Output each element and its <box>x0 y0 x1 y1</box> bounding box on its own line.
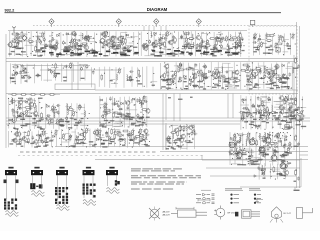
wire bus rail 6 <box>6 117 310 119</box>
right edge components <box>294 135 300 147</box>
wire bus rail 3 <box>6 61 298 63</box>
test point diamond TP3 <box>154 19 159 27</box>
svg-text:C: C <box>254 71 256 75</box>
square symbol mid right <box>285 125 289 129</box>
coil unit LB <box>83 167 96 206</box>
circuit cluster stage B1 <box>10 63 41 84</box>
circuit cluster block D3 <box>166 124 198 150</box>
circuit cluster stage B5 <box>240 62 296 90</box>
wire right stub <box>300 154 309 156</box>
wire bus rail 9 <box>55 146 308 148</box>
arrow marks <box>254 159 260 177</box>
header rule <box>5 12 282 14</box>
shield can bottom view <box>270 207 292 223</box>
wire bus rail 5 <box>6 93 298 95</box>
label row right <box>242 112 289 113</box>
resistor chain row <box>8 94 60 99</box>
svg-text:AA 119: AA 119 <box>163 211 171 214</box>
svg-text:BC 147: BC 147 <box>284 213 292 215</box>
transistor T239 <box>236 152 242 158</box>
svg-text:932.2: 932.2 <box>5 8 16 13</box>
in-circuit diamond <box>100 38 105 43</box>
wire right vertical 2 <box>293 55 295 150</box>
circuit cluster right section A6 <box>253 33 296 56</box>
box band B small <box>55 84 95 90</box>
circuit cluster stage B2 <box>42 62 89 82</box>
circuit cluster IF transformers C3 <box>99 95 150 128</box>
dimension arrow 2 <box>176 207 194 210</box>
svg-text:AA 129: AA 129 <box>163 214 171 217</box>
legend mark small <box>294 190 300 191</box>
crystal symbol X1 <box>149 207 170 221</box>
circuit cluster block D4 <box>228 132 292 166</box>
metal can side view <box>235 198 263 218</box>
transistor T232 <box>229 142 235 148</box>
svg-text:DIAGRAM: DIAGRAM <box>147 7 168 12</box>
transistor T262 <box>259 147 265 153</box>
dashed box right section <box>249 26 297 94</box>
square symbol right <box>276 48 280 52</box>
box lower right block <box>162 120 164 150</box>
coil unit GB <box>31 167 44 197</box>
test point square TP5 <box>250 20 254 27</box>
connector circle <box>252 70 258 76</box>
wire legend link 2 <box>206 167 300 169</box>
package side view <box>297 208 313 219</box>
coil unit KB <box>55 167 69 211</box>
legend text block <box>131 169 201 189</box>
right edge components <box>294 57 300 69</box>
transistor bottom view Q_pkg <box>214 206 235 220</box>
in-circuit diamond <box>22 35 27 40</box>
circuit cluster stage C2 <box>45 103 90 130</box>
wire right margin vertical <box>296 22 298 188</box>
wire dash row <box>20 151 156 153</box>
wire legend link 3 <box>210 175 296 177</box>
value label row band A2 <box>152 50 239 55</box>
circuit cluster stage B3 <box>92 66 158 88</box>
value label row band A <box>42 51 139 56</box>
wire bus rail 1 <box>8 30 247 32</box>
transistor T274 <box>271 155 277 161</box>
test point diamond TP1 <box>49 19 54 27</box>
diode package D_pkg <box>171 210 207 217</box>
coil unit TSSB tab <box>117 181 120 184</box>
circuit cluster output stage D2 <box>60 127 150 148</box>
circuit cluster stage D1 <box>9 129 61 148</box>
circuit cluster IF stage A4 <box>141 30 195 56</box>
coil unit GB blob <box>30 183 35 189</box>
circuit cluster stage C1 <box>8 97 45 130</box>
test point diamond TP4 <box>196 19 201 27</box>
transistor T268 <box>265 137 271 143</box>
circuit cluster stage B4 <box>160 62 241 90</box>
wire left margin vertical <box>5 34 7 148</box>
circuit cluster power tail D6 <box>259 163 290 180</box>
wire drops to band A <box>144 26 166 31</box>
circuit cluster IF stage A5 <box>195 31 244 57</box>
transistor T252 <box>249 139 255 145</box>
svg-text:BF 194: BF 194 <box>228 213 236 215</box>
wire bus rail 11 <box>95 159 308 161</box>
transistor T283 <box>280 163 286 169</box>
circuit cluster tuner stage A2 <box>61 31 101 57</box>
wire bus rail 2 <box>6 58 298 60</box>
right edge components <box>294 169 300 182</box>
dashed separator <box>18 155 205 157</box>
coil unit FM <box>4 167 19 217</box>
circuit cluster tuner stage A1 <box>7 31 61 58</box>
wire link band B <box>20 65 90 67</box>
circuit cluster stage C4 <box>239 95 306 130</box>
wires to lower box <box>163 94 233 122</box>
dashed board outline top <box>33 25 297 27</box>
wire bus rail 10 <box>160 151 308 153</box>
test point diamond TP2 <box>116 19 121 27</box>
wire bus rail 7 <box>6 120 310 122</box>
dimension arrow <box>198 199 210 202</box>
circuit cluster IF stage A3 <box>99 30 140 57</box>
antenna symbol <box>13 28 15 32</box>
wire bus rail 8 <box>6 123 240 125</box>
wire legend link 1 <box>202 159 300 161</box>
right edge components <box>294 99 300 111</box>
legend symbol table <box>196 189 261 204</box>
wire bus rail 4 <box>95 89 298 91</box>
coil unit TSSB <box>106 167 119 194</box>
